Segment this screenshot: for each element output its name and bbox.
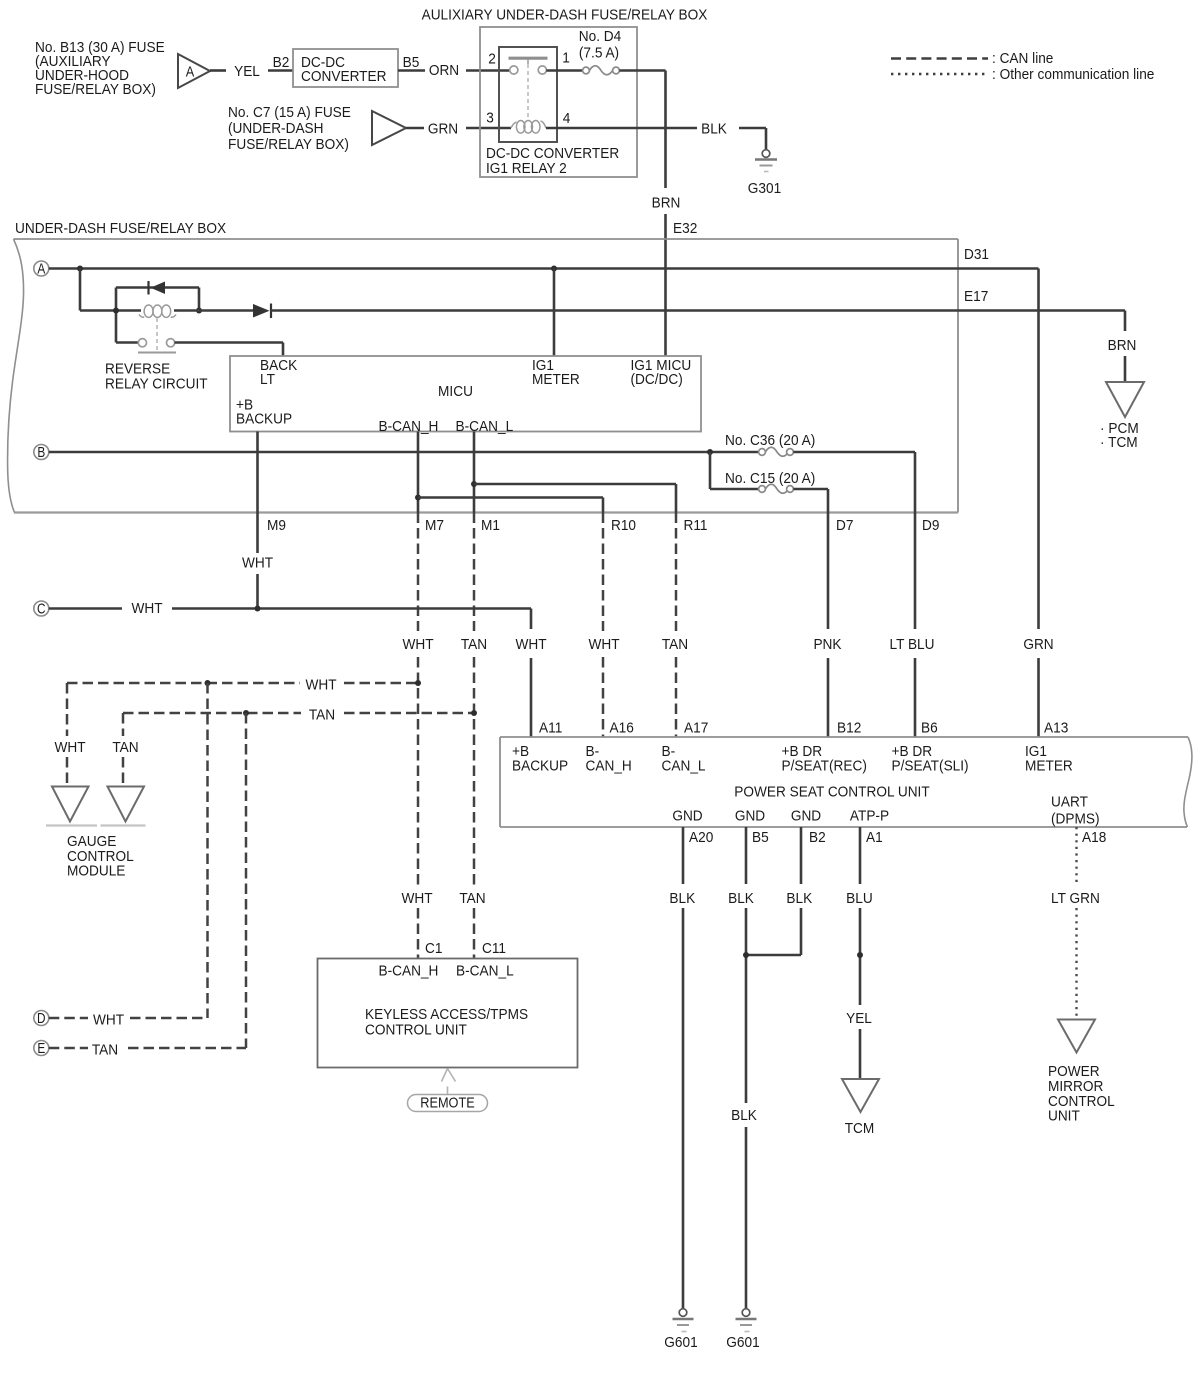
- svg-text:C: C: [37, 600, 46, 617]
- svg-text:P/SEAT(REC): P/SEAT(REC): [782, 758, 867, 775]
- svg-text:B5: B5: [403, 54, 420, 71]
- svg-text:KEYLESS ACCESS/TPMS: KEYLESS ACCESS/TPMS: [365, 1006, 528, 1023]
- svg-text:E17: E17: [964, 288, 988, 305]
- svg-text:AULIXIARY UNDER-DASH FUSE/RELA: AULIXIARY UNDER-DASH FUSE/RELAY BOX: [422, 7, 708, 24]
- svg-text:BLK: BLK: [786, 890, 812, 907]
- svg-text:BLK: BLK: [669, 890, 695, 907]
- svg-text:G601: G601: [664, 1334, 697, 1351]
- wire branch to R11: [474, 484, 676, 513]
- under-dash fuse/relay box outline: [8, 239, 958, 513]
- svg-text:D7: D7: [836, 517, 853, 534]
- svg-text:(DC/DC): (DC/DC): [631, 371, 683, 388]
- svg-text:3: 3: [486, 110, 494, 127]
- wire BLK from relay pin 4 to G301: [546, 128, 766, 150]
- svg-text:FUSE/RELAY BOX): FUSE/RELAY BOX): [35, 81, 156, 98]
- svg-text:No. C36 (20 A): No. C36 (20 A): [725, 432, 815, 449]
- svg-text:B-CAN_H: B-CAN_H: [379, 963, 439, 980]
- svg-text:B2: B2: [809, 829, 826, 846]
- junction WHT row / D branch: [205, 680, 211, 686]
- diode D (flyback, pointing left): [149, 281, 166, 295]
- svg-text:No. C7 (15 A) FUSE: No. C7 (15 A) FUSE: [228, 104, 351, 121]
- REVERSE RELAY CIRCUIT label: [105, 361, 208, 393]
- junction B-CAN_H branch: [415, 495, 421, 501]
- svg-text:LT BLU: LT BLU: [890, 636, 935, 653]
- svg-text:METER: METER: [1025, 758, 1073, 775]
- relay coil: [511, 121, 546, 134]
- connector arrow to gauge control module (TAN): [108, 787, 145, 822]
- junction on wire A: [77, 266, 83, 272]
- wire C row: [49, 609, 531, 738]
- wire gauge WHT stem: [66, 683, 69, 786]
- reverse relay contact terminals: [138, 339, 174, 347]
- wire IG1 METER pin: [553, 269, 556, 357]
- svg-text:BRN: BRN: [1108, 337, 1137, 354]
- wire BLU/YEL A1 to TCM: [859, 827, 862, 1078]
- svg-text:GRN: GRN: [428, 121, 458, 138]
- svg-text:WHT: WHT: [242, 555, 273, 572]
- wire E17 row: [271, 311, 1125, 382]
- svg-text:E32: E32: [673, 220, 697, 237]
- svg-text:(7.5 A): (7.5 A): [579, 45, 619, 62]
- wire from A junction down to reverse relay: [80, 269, 141, 311]
- fuse No. C36 (20 A): [725, 432, 815, 456]
- reverse relay right branch: [198, 288, 201, 311]
- connector arrow A (power source): [178, 54, 210, 88]
- svg-text:CONVERTER: CONVERTER: [301, 68, 387, 85]
- wire CAN E branch vertical: [245, 713, 248, 1048]
- wire from fuse C15 to D7: [793, 489, 828, 737]
- ground G601 (B5): [726, 1309, 759, 1351]
- svg-text:UNIT: UNIT: [1048, 1108, 1080, 1125]
- svg-text:ATP-P: ATP-P: [850, 808, 889, 825]
- svg-text:GRN: GRN: [1023, 636, 1053, 653]
- svg-text:TAN: TAN: [92, 1042, 118, 1059]
- junction right of coil: [196, 308, 202, 314]
- wire CAN TAN row: [123, 712, 474, 715]
- remote arrow into keyless unit: [442, 1069, 456, 1095]
- wire gauge TAN stem: [122, 713, 125, 786]
- wire ORN from DC-DC converter to relay pin 2: [398, 69, 510, 72]
- svg-text:C1: C1: [425, 940, 442, 957]
- connector arrow (C7 fuse): [372, 111, 406, 145]
- svg-text:TCM: TCM: [845, 1120, 875, 1137]
- svg-text:WHT: WHT: [515, 636, 546, 653]
- svg-text:LT GRN: LT GRN: [1051, 890, 1100, 907]
- reverse relay contact wire left: [116, 341, 139, 344]
- svg-text:PNK: PNK: [813, 636, 841, 653]
- svg-text:CONTROL UNIT: CONTROL UNIT: [365, 1022, 467, 1039]
- svg-text:B12: B12: [837, 720, 861, 737]
- svg-text:BRN: BRN: [652, 195, 681, 212]
- wire CAN WHT row: [67, 682, 418, 685]
- relay K1 DC-DC CONVERTER IG1 RELAY 2 box: [486, 47, 619, 177]
- svg-text:BACKUP: BACKUP: [236, 411, 292, 428]
- svg-text:WHT: WHT: [588, 636, 619, 653]
- label PCM TCM: [1100, 420, 1139, 451]
- svg-text:4: 4: [563, 110, 571, 127]
- ground G601 (A20): [664, 1309, 697, 1351]
- connector arrow to PCM/TCM: [1106, 382, 1144, 417]
- svg-text:P/SEAT(SLI): P/SEAT(SLI): [892, 758, 969, 775]
- svg-text:WHT: WHT: [131, 600, 162, 617]
- svg-text:D9: D9: [922, 517, 939, 534]
- svg-text:2: 2: [488, 51, 496, 68]
- svg-text:METER: METER: [532, 371, 580, 388]
- svg-text:REMOTE: REMOTE: [420, 1095, 475, 1112]
- wire B row: [49, 451, 759, 454]
- svg-text:TAN: TAN: [309, 707, 335, 724]
- svg-text:MICU: MICU: [438, 383, 473, 400]
- svg-text:D31: D31: [964, 246, 989, 263]
- junction TAN row / M1: [471, 710, 477, 716]
- wire B-CAN_H inside box: [417, 432, 420, 513]
- wire CAN M1 to C11: [473, 513, 476, 959]
- svg-text:WHT: WHT: [305, 677, 336, 694]
- svg-text:R10: R10: [611, 517, 636, 534]
- junction left of coil: [113, 308, 119, 314]
- svg-text:B-CAN_L: B-CAN_L: [456, 418, 514, 435]
- svg-text:MODULE: MODULE: [67, 863, 125, 880]
- node E: [34, 1040, 49, 1057]
- node C: [34, 600, 49, 617]
- relay contact terminals: [510, 66, 547, 74]
- svg-text:CAN_L: CAN_L: [662, 758, 706, 775]
- svg-text:B-CAN_H: B-CAN_H: [379, 418, 439, 435]
- svg-text:G301: G301: [748, 180, 781, 197]
- wire LT GRN A18 to power mirror: [1075, 827, 1077, 1018]
- svg-text:A: A: [186, 64, 195, 81]
- svg-text:TAN: TAN: [459, 890, 485, 907]
- svg-text:UNDER-DASH FUSE/RELAY BOX: UNDER-DASH FUSE/RELAY BOX: [15, 220, 226, 237]
- ground G301: [748, 150, 781, 197]
- junction C row M9: [255, 606, 261, 612]
- wire from fuse C36 to D9: [793, 452, 915, 737]
- relay contact bar: [509, 58, 548, 119]
- svg-text:M9: M9: [267, 517, 286, 534]
- svg-text:A11: A11: [539, 720, 562, 737]
- svg-text:B: B: [37, 444, 45, 461]
- svg-text:No. D4: No. D4: [579, 28, 622, 45]
- wire from relay contact to BACK LT: [175, 343, 284, 357]
- svg-text:UART: UART: [1051, 794, 1088, 811]
- svg-text:A20: A20: [689, 829, 713, 846]
- svg-text:A13: A13: [1044, 720, 1068, 737]
- label No. C7 fuse source: [228, 104, 351, 153]
- svg-text:ORN: ORN: [429, 62, 459, 79]
- svg-text:· TCM: · TCM: [1100, 434, 1138, 451]
- reverse relay coil: [139, 305, 176, 317]
- svg-text:WHT: WHT: [402, 636, 433, 653]
- svg-text:BLK: BLK: [731, 1107, 757, 1124]
- svg-text:A18: A18: [1082, 829, 1106, 846]
- auxiliary under-dash fuse/relay box outline: [480, 27, 637, 177]
- wire A row to D31: [49, 269, 1039, 738]
- svg-text:GND: GND: [672, 808, 702, 825]
- wire branch to fuse C15: [710, 452, 759, 489]
- reverse relay loop left branch: [115, 288, 118, 343]
- svg-text:No. C15 (20 A): No. C15 (20 A): [725, 470, 815, 487]
- svg-text:A1: A1: [866, 829, 883, 846]
- junction B5/B2: [743, 952, 749, 958]
- svg-text:M1: M1: [481, 517, 500, 534]
- wire from relay coil to diode: [174, 309, 253, 312]
- svg-text:WHT: WHT: [54, 739, 85, 756]
- svg-text:1: 1: [562, 50, 570, 67]
- wire +B BACKUP / M9: [256, 432, 259, 609]
- svg-text:WHT: WHT: [401, 890, 432, 907]
- svg-text:D: D: [37, 1010, 46, 1027]
- wire CAN D branch vertical: [206, 683, 209, 1018]
- node A: [34, 260, 49, 277]
- wire D row: [49, 1017, 208, 1020]
- connector arrow to gauge control module (WHT): [52, 787, 89, 822]
- svg-text:YEL: YEL: [234, 63, 260, 80]
- POWER MIRROR CONTROL UNIT label: [1048, 1063, 1115, 1125]
- wire from relay contact to fuse D4: [546, 69, 582, 72]
- svg-text:: CAN line: : CAN line: [992, 50, 1053, 67]
- reverse relay armature bar: [138, 352, 176, 354]
- wire CAN R10 to A16: [602, 513, 605, 738]
- junction splice A1: [857, 952, 863, 958]
- fuse No. D4 (7.5 A): [579, 28, 622, 75]
- svg-text:WHT: WHT: [93, 1012, 124, 1029]
- svg-text:B2: B2: [273, 54, 290, 71]
- KEYLESS ACCESS/TPMS CONTROL UNIT box: [318, 959, 578, 1068]
- wire YEL from arrow A to DC-DC converter: [210, 69, 293, 72]
- svg-text:E: E: [37, 1040, 45, 1057]
- label No. B13 fuse source: [35, 39, 165, 98]
- svg-text:CAN_H: CAN_H: [586, 758, 632, 775]
- svg-text:GND: GND: [791, 808, 821, 825]
- junction TAN row / E branch: [243, 710, 249, 716]
- connector arrow to power mirror control unit: [1058, 1020, 1095, 1053]
- svg-text:YEL: YEL: [846, 1010, 872, 1027]
- DC-DC CONVERTER box: [293, 49, 398, 87]
- svg-text:C11: C11: [482, 940, 506, 957]
- svg-text:A16: A16: [610, 720, 634, 737]
- svg-text:FUSE/RELAY BOX): FUSE/RELAY BOX): [228, 136, 349, 153]
- svg-text:B6: B6: [921, 720, 938, 737]
- legend other communication line: [891, 66, 1154, 83]
- gauge module underline: [46, 824, 146, 826]
- POWER SEAT CONTROL UNIT box: [500, 737, 1192, 828]
- wire GRN from arrow to relay pin 3: [406, 127, 511, 130]
- fuse No. C15 (20 A): [725, 470, 815, 493]
- wire BLK B2 joins B5: [746, 827, 801, 955]
- wire E row: [49, 1047, 246, 1050]
- wire CAN M7 to C1: [417, 513, 420, 959]
- wire branch to R10: [418, 498, 603, 513]
- svg-text:RELAY CIRCUIT: RELAY CIRCUIT: [105, 376, 208, 393]
- svg-text:M7: M7: [425, 517, 444, 534]
- svg-text:BLK: BLK: [728, 890, 754, 907]
- svg-text:POWER SEAT CONTROL UNIT: POWER SEAT CONTROL UNIT: [734, 784, 929, 801]
- svg-text:B-CAN_L: B-CAN_L: [456, 963, 514, 980]
- junction B-CAN_L branch: [471, 481, 477, 487]
- svg-text:B5: B5: [752, 829, 769, 846]
- junction B fuse branch: [707, 449, 713, 455]
- svg-text:BLK: BLK: [701, 121, 727, 138]
- svg-text:BLU: BLU: [846, 890, 873, 907]
- svg-text:TAN: TAN: [112, 739, 138, 756]
- node D: [34, 1010, 49, 1027]
- node B: [34, 444, 49, 461]
- svg-text:G601: G601: [726, 1334, 759, 1351]
- svg-text:IG1 RELAY 2: IG1 RELAY 2: [486, 160, 567, 177]
- diode (series, pointing right): [253, 304, 271, 319]
- svg-text:A: A: [37, 260, 45, 277]
- wire BLK B5 to G601: [745, 827, 748, 1309]
- junction WHT row / M7: [415, 680, 421, 686]
- svg-text:BACKUP: BACKUP: [512, 758, 568, 775]
- svg-text:GND: GND: [735, 808, 765, 825]
- svg-text:R11: R11: [684, 517, 708, 534]
- wire CAN R11 to A17: [675, 513, 678, 738]
- wire BLK A20 to G601: [682, 827, 685, 1309]
- REMOTE bubble: [408, 1095, 488, 1112]
- svg-text:: Other communication line: : Other communication line: [992, 66, 1154, 83]
- connector arrow to TCM: [842, 1079, 879, 1112]
- wire from fuse D4 to E32: [619, 71, 665, 357]
- legend CAN line: [891, 50, 1053, 67]
- GAUGE CONTROL MODULE label: [67, 833, 134, 880]
- junction at IG1 METER branch: [551, 266, 557, 272]
- svg-text:(DPMS): (DPMS): [1051, 811, 1100, 828]
- MICU box: [230, 356, 701, 435]
- svg-text:TAN: TAN: [461, 636, 487, 653]
- svg-text:(UNDER-DASH: (UNDER-DASH: [228, 120, 324, 137]
- svg-text:TAN: TAN: [662, 636, 688, 653]
- reverse relay armature link: [156, 318, 158, 350]
- wire B-CAN_L inside box: [473, 432, 476, 513]
- svg-text:LT: LT: [260, 371, 275, 388]
- reverse relay diode branch: [116, 286, 199, 289]
- svg-text:A17: A17: [684, 720, 708, 737]
